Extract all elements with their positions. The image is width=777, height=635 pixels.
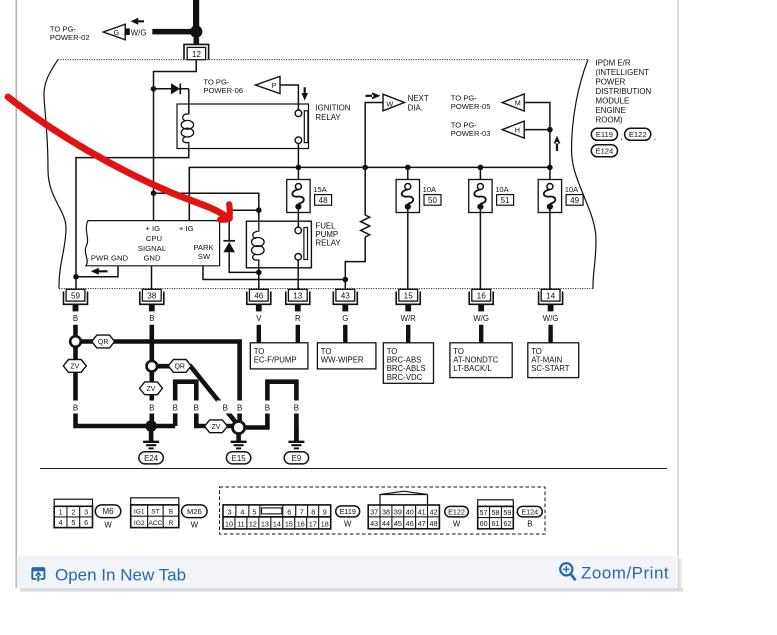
svg-text:B: B bbox=[73, 403, 78, 412]
svg-text:M6: M6 bbox=[102, 507, 114, 516]
destination block TO BRC bbox=[383, 343, 433, 384]
wire CPU PWR GND to ground node bbox=[76, 266, 118, 277]
CPU block box (torn left edge) bbox=[85, 221, 219, 266]
svg-text:B: B bbox=[149, 314, 154, 323]
wire to TO AT-MAIN bbox=[548, 325, 552, 343]
svg-text:MODULE: MODULE bbox=[596, 97, 630, 106]
ground E24 bbox=[149, 426, 154, 441]
svg-text:PWR GND: PWR GND bbox=[91, 253, 129, 262]
connector label E122 oval bbox=[445, 506, 469, 517]
svg-text:45: 45 bbox=[394, 519, 402, 528]
splice circle on 38 wire bbox=[147, 361, 158, 372]
wire to diode / ignition relay coil bbox=[154, 88, 189, 90]
svg-text:3: 3 bbox=[84, 507, 88, 516]
svg-text:10: 10 bbox=[225, 519, 233, 528]
svg-text:FUEL: FUEL bbox=[315, 221, 336, 230]
off-page triangle W (NEXT DIA.) bbox=[383, 94, 404, 111]
svg-text:2: 2 bbox=[71, 507, 75, 516]
svg-text:POWER-05: POWER-05 bbox=[451, 102, 491, 111]
svg-text:+ IG: + IG bbox=[145, 224, 160, 233]
destination block TO EC-F/PUMP bbox=[250, 343, 308, 369]
svg-text:B: B bbox=[237, 403, 242, 412]
svg-text:M: M bbox=[515, 98, 521, 107]
svg-text:LT-BACK/L: LT-BACK/L bbox=[453, 364, 492, 373]
svg-text:B: B bbox=[527, 520, 532, 529]
svg-text:PUMP: PUMP bbox=[315, 230, 338, 239]
svg-text:ENGINE: ENGINE bbox=[596, 106, 626, 115]
connector label M26 oval bbox=[182, 505, 208, 518]
wire node to terminal 43 bbox=[344, 280, 346, 290]
ground E15 bbox=[236, 434, 241, 442]
svg-text:1: 1 bbox=[59, 507, 63, 516]
svg-text:43: 43 bbox=[370, 519, 378, 528]
wire to diode D2 bbox=[229, 210, 259, 240]
svg-text:SC-START: SC-START bbox=[531, 364, 570, 373]
svg-text:15: 15 bbox=[404, 292, 414, 301]
red annotation arrow bbox=[8, 97, 226, 217]
splice label ZV (38 wire) bbox=[140, 382, 163, 395]
connector label E124 oval bbox=[591, 145, 617, 157]
svg-text:59: 59 bbox=[71, 292, 81, 301]
toolbar shadow bbox=[20, 588, 683, 592]
svg-text:6: 6 bbox=[287, 507, 291, 516]
svg-text:10A: 10A bbox=[495, 185, 509, 194]
svg-text:49: 49 bbox=[570, 196, 579, 205]
svg-text:CPU: CPU bbox=[146, 234, 162, 243]
diode D1 (ignition relay suppression) bbox=[171, 83, 180, 94]
terminal 14 with wire label W/G bbox=[539, 292, 563, 305]
wire P triangle to ignition relay contact bbox=[280, 85, 298, 110]
svg-text:4: 4 bbox=[59, 518, 63, 527]
svg-text:62: 62 bbox=[503, 519, 511, 528]
wire fuel pump relay coil to terminal 46 bbox=[258, 268, 260, 290]
wire diode to ignition relay coil bbox=[188, 89, 190, 113]
wire resistor to park sw node bbox=[345, 237, 365, 280]
svg-text:44: 44 bbox=[382, 519, 390, 528]
svg-text:AT-NONDTC: AT-NONDTC bbox=[453, 356, 498, 365]
fuel pump relay contact bar bbox=[304, 228, 308, 260]
terminal 59 with wire label B bbox=[64, 292, 88, 305]
connector label M6 oval bbox=[95, 505, 121, 518]
svg-text:POWER-02: POWER-02 bbox=[50, 33, 90, 42]
svg-text:B: B bbox=[173, 403, 178, 412]
wire +IG node to fuel pump relay coil bbox=[154, 193, 259, 221]
svg-text:G: G bbox=[342, 314, 348, 323]
svg-text:BRC-ABS: BRC-ABS bbox=[387, 356, 422, 365]
svg-text:POWER: POWER bbox=[596, 77, 626, 86]
main +IG bus wire bbox=[189, 167, 550, 220]
wire bridge E24 to E15 (inverted U) bbox=[175, 382, 233, 426]
panel left border bbox=[15, 0, 17, 588]
wire QR from 38 splice (diagonal) to E15 bbox=[152, 366, 238, 424]
panel right border bbox=[677, 0, 679, 588]
svg-text:5: 5 bbox=[252, 507, 256, 516]
IPDM E/R enclosure boundary (dashed top) bbox=[58, 59, 588, 61]
svg-text:W: W bbox=[386, 99, 393, 108]
destination block TO WW-WIPER bbox=[317, 343, 376, 369]
off-page triangle P (TO PG-POWER-06) bbox=[255, 76, 280, 93]
svg-text:W/G: W/G bbox=[543, 314, 559, 323]
svg-text:50: 50 bbox=[428, 196, 437, 205]
svg-text:,: , bbox=[654, 133, 656, 142]
svg-text:+ IG: + IG bbox=[179, 224, 194, 233]
svg-text:13: 13 bbox=[293, 292, 303, 301]
label B bbox=[170, 401, 181, 414]
wire to TO BRC bbox=[406, 325, 410, 343]
terminal 15 with wire label W/R bbox=[396, 292, 420, 305]
svg-text:H: H bbox=[515, 126, 520, 135]
svg-text:E119: E119 bbox=[340, 507, 356, 516]
fuel pump relay box bbox=[246, 221, 311, 268]
junction dot bus x=407.8 bbox=[405, 165, 411, 171]
label B bbox=[146, 401, 157, 414]
svg-text:POWER-06: POWER-06 bbox=[203, 86, 243, 95]
connector face M6 bbox=[54, 499, 92, 506]
svg-text:ROOM): ROOM) bbox=[596, 116, 624, 125]
svg-text:TO: TO bbox=[321, 347, 332, 356]
terminal 13 with wire label R bbox=[286, 292, 310, 305]
svg-text:42: 42 bbox=[429, 507, 437, 516]
IPDM enclosure boundary (dashed bottom) bbox=[59, 288, 593, 290]
svg-text:RELAY: RELAY bbox=[315, 113, 341, 122]
svg-text:SIGNAL: SIGNAL bbox=[138, 244, 167, 253]
svg-text:TO: TO bbox=[387, 347, 398, 356]
svg-text:P: P bbox=[272, 81, 277, 90]
svg-text:41: 41 bbox=[418, 507, 426, 516]
svg-text:Open In New Tab: Open In New Tab bbox=[55, 566, 186, 585]
connector terminal square at triangle G bbox=[123, 28, 129, 35]
svg-text:4: 4 bbox=[240, 507, 244, 516]
svg-text:12: 12 bbox=[192, 50, 202, 59]
connector label E119 oval bbox=[336, 506, 360, 517]
direction arrow left (PWR GND) bbox=[91, 268, 108, 275]
link icon open-in-new-tab bbox=[31, 567, 45, 571]
junction dot bus x=480.4 bbox=[478, 165, 484, 171]
svg-text:W/G: W/G bbox=[131, 28, 147, 37]
svg-text:16: 16 bbox=[477, 292, 487, 301]
ignition relay box bbox=[177, 104, 309, 149]
junction dot M/H bbox=[547, 127, 553, 133]
connector label E124 oval bbox=[517, 506, 542, 517]
svg-text:W: W bbox=[344, 520, 352, 529]
terminal 38 with wire label B bbox=[140, 292, 164, 305]
destination block TO AT-MAIN bbox=[528, 343, 579, 378]
splice label ZV (E15 wire) bbox=[205, 420, 228, 433]
svg-text:G: G bbox=[114, 28, 120, 37]
wire diode D2 to terminal 46 wire bbox=[229, 252, 259, 272]
resistor R1 bbox=[364, 167, 366, 215]
terminal 46 with wire label V bbox=[247, 292, 271, 305]
svg-text:E124: E124 bbox=[521, 507, 538, 516]
svg-text:B: B bbox=[169, 509, 174, 516]
svg-text:46: 46 bbox=[406, 519, 414, 528]
wire fuel pump relay contact to terminal 13 bbox=[297, 260, 299, 289]
wire battery feed vertical (thick W/G) bbox=[193, 0, 199, 30]
svg-text:RELAY: RELAY bbox=[315, 239, 341, 248]
svg-text:14: 14 bbox=[546, 292, 556, 301]
wire to TO EC-F/PUMP bbox=[257, 325, 261, 343]
svg-text:BRC-ABLS: BRC-ABLS bbox=[387, 364, 426, 373]
svg-text:38: 38 bbox=[147, 292, 157, 301]
svg-text:M26: M26 bbox=[187, 507, 202, 516]
fuse F51 10A bbox=[469, 180, 492, 213]
svg-text:WW-WIPER: WW-WIPER bbox=[321, 356, 364, 365]
svg-text:DIA.: DIA. bbox=[408, 103, 423, 112]
connector face E122 bbox=[380, 491, 428, 505]
link icon magnifier bbox=[560, 563, 575, 580]
svg-text:38: 38 bbox=[382, 507, 390, 516]
svg-text:9: 9 bbox=[323, 507, 327, 516]
wire CPU GND to terminal 38 bbox=[151, 266, 153, 290]
connector face M26 bbox=[131, 498, 179, 505]
svg-text:,: , bbox=[621, 133, 623, 142]
splice label ZV (59 wire) bbox=[63, 360, 86, 373]
svg-text:ACC: ACC bbox=[148, 520, 162, 527]
splice circle on 59 wire bbox=[70, 336, 81, 347]
svg-text:13: 13 bbox=[261, 519, 269, 528]
svg-text:5: 5 bbox=[71, 518, 75, 527]
svg-text:48: 48 bbox=[319, 196, 328, 205]
separator line bbox=[40, 468, 667, 470]
svg-text:DISTRIBUTION: DISTRIBUTION bbox=[596, 87, 652, 96]
svg-text:B: B bbox=[223, 403, 228, 412]
svg-text:12: 12 bbox=[249, 519, 257, 528]
fuel pump relay coil bbox=[253, 221, 259, 238]
svg-text:39: 39 bbox=[394, 507, 402, 516]
svg-text:B: B bbox=[294, 403, 299, 412]
svg-text:R: R bbox=[169, 520, 174, 527]
fuse F49 10A bbox=[538, 180, 561, 213]
svg-text:58: 58 bbox=[492, 508, 500, 517]
junction node at ignition relay diode bbox=[151, 86, 157, 92]
terminal 43 with wire label G bbox=[333, 292, 357, 305]
ignition relay coil bbox=[183, 104, 189, 121]
label B bbox=[191, 401, 202, 414]
svg-text:QR: QR bbox=[174, 364, 185, 371]
svg-text:6: 6 bbox=[84, 518, 88, 527]
label B bbox=[217, 401, 232, 414]
wire bus to fuse 50 bbox=[407, 167, 409, 184]
splice label QR (38 wire) bbox=[168, 360, 191, 373]
svg-text:BRC-VDC: BRC-VDC bbox=[387, 373, 423, 382]
svg-text:E122: E122 bbox=[448, 507, 465, 516]
off-page triangle G (TO PG-POWER-02) bbox=[103, 24, 125, 40]
svg-text:W/R: W/R bbox=[401, 314, 417, 323]
fuse F48 15A bbox=[287, 180, 310, 213]
svg-text:SW: SW bbox=[198, 252, 211, 261]
IPDM enclosure torn right edge bbox=[572, 60, 597, 289]
svg-text:E122: E122 bbox=[629, 130, 647, 139]
svg-text:IG2: IG2 bbox=[134, 520, 145, 527]
junction dot bus x=365.2 bbox=[362, 165, 368, 171]
svg-text:48: 48 bbox=[429, 519, 437, 528]
svg-text:ZV: ZV bbox=[70, 364, 79, 371]
wire CPU +IG2 from bus corner bbox=[188, 167, 190, 220]
direction arrow right (next dia) bbox=[366, 92, 381, 99]
junction dot park sw / resistor bbox=[343, 277, 349, 283]
svg-text:W: W bbox=[453, 520, 461, 529]
svg-text:E119: E119 bbox=[596, 130, 613, 139]
wire to TO WW-WIPER bbox=[343, 325, 347, 343]
svg-text:10A: 10A bbox=[423, 185, 437, 194]
junction dot top W/G node bbox=[190, 25, 202, 37]
direction arrow down bbox=[301, 87, 308, 100]
svg-text:47: 47 bbox=[418, 519, 426, 528]
connector label E122 oval bbox=[625, 128, 651, 140]
wire fuse 50 to terminal 15 bbox=[407, 207, 409, 290]
svg-text:QR: QR bbox=[98, 339, 109, 346]
junction dot PWR GND / relay coil return bbox=[73, 274, 79, 280]
svg-text:EC-F/PUMP: EC-F/PUMP bbox=[254, 356, 297, 365]
svg-text:NEXT: NEXT bbox=[408, 94, 429, 103]
wire ignition relay contact to bus bbox=[297, 144, 299, 168]
svg-text:7: 7 bbox=[300, 507, 304, 516]
direction arrow up bbox=[554, 136, 561, 151]
wire M/H triangles to bus bbox=[524, 103, 550, 168]
direction arrow left (top) bbox=[131, 18, 144, 25]
svg-text:IG1: IG1 bbox=[134, 509, 145, 516]
svg-text:E24: E24 bbox=[144, 454, 159, 463]
svg-text:18: 18 bbox=[321, 519, 329, 528]
wire ignition relay coil to PWR GND node bbox=[76, 149, 189, 290]
svg-text:TO: TO bbox=[453, 347, 464, 356]
svg-text:15: 15 bbox=[285, 519, 293, 528]
svg-text:59: 59 bbox=[503, 508, 511, 517]
svg-text:11: 11 bbox=[237, 519, 244, 528]
svg-text:37: 37 bbox=[370, 507, 378, 516]
svg-text:ST: ST bbox=[151, 509, 159, 516]
off-page triangle H (TO PG-POWER-03) bbox=[502, 121, 524, 138]
svg-text:AT-MAIN: AT-MAIN bbox=[531, 356, 562, 365]
svg-text:43: 43 bbox=[341, 292, 351, 301]
wire bus to fuse 51 bbox=[479, 167, 481, 184]
wire QR from 59 splice to E15 bbox=[76, 342, 240, 428]
wire B from terminal 38 to E24 bbox=[150, 325, 155, 426]
svg-text:40: 40 bbox=[406, 507, 414, 516]
wire W/G horizontal to TO PG-POWER-02 bbox=[152, 29, 194, 35]
toolbar background bbox=[17, 556, 678, 588]
svg-text:R: R bbox=[295, 314, 301, 323]
svg-text:3: 3 bbox=[227, 507, 231, 516]
junction dot bus x=549.9 bbox=[547, 165, 553, 171]
ignition relay contact pins bbox=[295, 110, 302, 117]
splice label QR (59 wire) bbox=[92, 335, 115, 348]
svg-text:16: 16 bbox=[297, 519, 305, 528]
svg-text:POWER-03: POWER-03 bbox=[451, 129, 491, 138]
svg-text:GND: GND bbox=[143, 253, 161, 262]
svg-text:B: B bbox=[265, 403, 270, 412]
svg-text:V: V bbox=[256, 314, 262, 323]
svg-text:8: 8 bbox=[311, 507, 315, 516]
svg-text:60: 60 bbox=[480, 519, 488, 528]
label B bbox=[234, 401, 245, 414]
svg-text:W: W bbox=[191, 521, 199, 530]
diode D2 (park switch) bbox=[223, 240, 235, 242]
svg-text:10A: 10A bbox=[565, 185, 579, 194]
junction dot coil/diode bbox=[256, 207, 262, 213]
svg-text:B: B bbox=[194, 403, 199, 412]
fuse F50 10A bbox=[396, 180, 419, 213]
svg-text:E124: E124 bbox=[596, 147, 614, 156]
svg-text:PARK: PARK bbox=[193, 243, 214, 252]
fuel pump relay contact pins bbox=[295, 227, 302, 234]
wire bus to fuse 48 bbox=[297, 167, 299, 184]
svg-text:IGNITION: IGNITION bbox=[315, 103, 350, 112]
dashed group box (IPDM connectors) bbox=[220, 487, 546, 534]
svg-text:ZV: ZV bbox=[212, 424, 221, 431]
splice circle at E15 bbox=[233, 421, 245, 433]
wire CPU PARK SW to node bbox=[203, 266, 345, 280]
wire fuse 49 to terminal 14 bbox=[549, 207, 551, 290]
svg-text:57: 57 bbox=[480, 508, 488, 517]
junction dot at E24 bbox=[145, 420, 157, 432]
junction dot diode/coil return bbox=[256, 270, 262, 276]
connector face E124 bbox=[478, 500, 514, 507]
svg-text:TO: TO bbox=[254, 347, 265, 356]
svg-text:W/G: W/G bbox=[473, 314, 489, 323]
svg-text:46: 46 bbox=[254, 292, 264, 301]
svg-text:B: B bbox=[73, 314, 78, 323]
svg-text:W: W bbox=[104, 521, 112, 530]
ignition relay contact bar bbox=[304, 111, 308, 143]
svg-text:15A: 15A bbox=[313, 185, 327, 194]
wire B from terminal 59 bbox=[76, 325, 176, 426]
svg-text:Zoom/Print: Zoom/Print bbox=[581, 564, 669, 583]
svg-text:51: 51 bbox=[501, 196, 510, 205]
label B bbox=[70, 401, 81, 414]
connector 12 (IPDM terminal) bbox=[194, 38, 200, 45]
wire fuse 51 to terminal 16 bbox=[479, 207, 481, 290]
junction dot bus x=298.4 bbox=[296, 165, 302, 171]
ground E9 bbox=[294, 426, 299, 441]
wire fuse 48 to fuel pump relay contact bbox=[297, 209, 299, 227]
svg-text:17: 17 bbox=[309, 519, 317, 528]
wire bridge E15 to E9 (inverted U) bbox=[245, 382, 297, 442]
svg-text:B: B bbox=[149, 403, 154, 412]
svg-text:(INTELLIGENT: (INTELLIGENT bbox=[596, 68, 650, 77]
IPDM enclosure torn left edge bbox=[44, 60, 66, 289]
connector face E119 bbox=[223, 505, 236, 517]
wire bus to fuse 49 bbox=[549, 167, 551, 184]
off-page triangle M (TO PG-POWER-05) bbox=[502, 94, 524, 111]
wire from connector 12 to +IG circuit bbox=[154, 60, 197, 221]
destination block TO AT-NONDTC bbox=[450, 343, 512, 378]
svg-text:E9: E9 bbox=[292, 454, 302, 463]
svg-text:IPDM E/R: IPDM E/R bbox=[596, 58, 631, 67]
svg-text:14: 14 bbox=[273, 519, 281, 528]
wire to TO AT-NONDTC bbox=[479, 325, 483, 343]
svg-text:61: 61 bbox=[492, 519, 500, 528]
label B bbox=[291, 401, 302, 414]
wire bus to W triangle bbox=[365, 103, 383, 168]
svg-text:TO: TO bbox=[531, 347, 542, 356]
terminal 16 with wire label W/G bbox=[469, 292, 493, 305]
svg-text:E15: E15 bbox=[232, 454, 247, 463]
connector label E119 oval bbox=[591, 128, 617, 140]
label B bbox=[262, 401, 273, 414]
svg-text:ZV: ZV bbox=[147, 386, 156, 393]
